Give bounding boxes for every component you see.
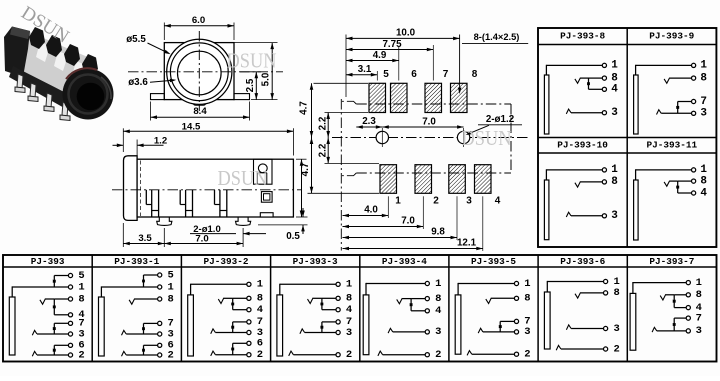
svg-text:7: 7 <box>696 312 702 324</box>
svg-text:3: 3 <box>696 325 702 337</box>
svg-text:8: 8 <box>611 72 618 84</box>
svg-text:1.2: 1.2 <box>154 135 167 146</box>
svg-text:2: 2 <box>613 343 619 355</box>
svg-text:3: 3 <box>346 327 352 339</box>
svg-text:1: 1 <box>168 281 174 293</box>
svg-text:4.7: 4.7 <box>299 101 310 115</box>
svg-text:4: 4 <box>495 195 501 206</box>
svg-text:4: 4 <box>700 187 707 199</box>
svg-text:8: 8 <box>700 72 707 84</box>
svg-text:8: 8 <box>696 289 702 301</box>
svg-text:PJ-393-9: PJ-393-9 <box>649 31 694 42</box>
svg-text:3: 3 <box>466 195 472 206</box>
svg-text:3: 3 <box>611 210 618 222</box>
svg-text:8: 8 <box>435 293 441 305</box>
svg-text:2: 2 <box>433 195 439 206</box>
svg-text:8.4: 8.4 <box>193 106 207 117</box>
svg-text:4.0: 4.0 <box>364 205 378 216</box>
svg-text:5: 5 <box>383 69 389 80</box>
svg-text:2.2: 2.2 <box>318 116 329 130</box>
svg-text:6: 6 <box>257 338 263 350</box>
svg-text:8: 8 <box>257 293 263 305</box>
svg-text:2: 2 <box>78 349 84 361</box>
svg-text:4.7: 4.7 <box>300 162 311 176</box>
svg-text:PJ-393: PJ-393 <box>31 256 65 267</box>
svg-text:7.0: 7.0 <box>422 117 436 128</box>
svg-text:5: 5 <box>168 269 174 281</box>
svg-text:PJ-393-2: PJ-393-2 <box>203 256 248 267</box>
svg-text:12.1: 12.1 <box>457 238 477 249</box>
svg-text:1: 1 <box>611 164 618 176</box>
svg-text:4: 4 <box>611 84 618 96</box>
svg-text:PJ-393-6: PJ-393-6 <box>560 256 605 267</box>
svg-text:6.0: 6.0 <box>192 15 205 26</box>
svg-text:PJ-393-1: PJ-393-1 <box>114 256 159 267</box>
svg-text:5.0: 5.0 <box>261 72 272 86</box>
svg-text:6: 6 <box>411 69 417 80</box>
svg-text:3: 3 <box>78 328 84 340</box>
svg-text:8: 8 <box>346 293 352 305</box>
svg-text:2: 2 <box>524 349 530 361</box>
svg-text:1: 1 <box>78 281 84 293</box>
svg-text:4: 4 <box>435 305 441 317</box>
svg-text:DSUN: DSUN <box>462 126 512 150</box>
svg-text:PJ-393-8: PJ-393-8 <box>560 31 605 42</box>
svg-text:14.5: 14.5 <box>182 121 201 132</box>
svg-text:1: 1 <box>700 164 707 176</box>
svg-text:PJ-393-3: PJ-393-3 <box>293 256 338 267</box>
svg-text:8: 8 <box>524 293 530 305</box>
svg-text:3: 3 <box>613 323 619 335</box>
svg-text:1: 1 <box>435 278 441 290</box>
svg-text:8: 8 <box>613 287 619 299</box>
svg-text:PJ-393-5: PJ-393-5 <box>471 256 516 267</box>
svg-text:1: 1 <box>700 60 707 72</box>
svg-text:1: 1 <box>696 277 702 289</box>
svg-text:7.0: 7.0 <box>401 216 415 227</box>
svg-text:8: 8 <box>472 69 478 80</box>
svg-text:1: 1 <box>613 276 619 288</box>
svg-text:PJ-393-11: PJ-393-11 <box>646 140 697 151</box>
svg-text:2: 2 <box>346 349 352 361</box>
svg-text:2: 2 <box>257 349 263 361</box>
svg-text:PJ-393-7: PJ-393-7 <box>649 256 694 267</box>
svg-text:1: 1 <box>346 279 352 291</box>
svg-text:2.5: 2.5 <box>245 78 256 92</box>
svg-text:DSUN: DSUN <box>227 49 277 73</box>
svg-text:4: 4 <box>346 304 352 316</box>
svg-text:3: 3 <box>168 328 174 340</box>
svg-text:2-ø1.2: 2-ø1.2 <box>486 114 515 125</box>
svg-text:1: 1 <box>611 60 618 72</box>
svg-text:8: 8 <box>168 293 174 305</box>
svg-text:10.0: 10.0 <box>396 28 416 39</box>
svg-text:8: 8 <box>611 176 618 188</box>
svg-text:1: 1 <box>257 279 263 291</box>
svg-text:3: 3 <box>611 107 618 119</box>
svg-text:8: 8 <box>700 175 707 187</box>
svg-text:2: 2 <box>168 349 174 361</box>
svg-text:7: 7 <box>443 69 449 80</box>
svg-text:3.5: 3.5 <box>138 233 152 244</box>
svg-text:9.8: 9.8 <box>431 227 445 238</box>
svg-text:ø5.5: ø5.5 <box>126 34 146 45</box>
svg-text:5: 5 <box>78 270 84 282</box>
svg-text:3.1: 3.1 <box>358 64 372 75</box>
svg-text:1: 1 <box>395 195 401 206</box>
svg-text:PJ-393-4: PJ-393-4 <box>382 256 427 267</box>
svg-text:4: 4 <box>257 304 263 316</box>
svg-text:PJ-393-10: PJ-393-10 <box>557 140 608 151</box>
svg-text:8-(1.4×2.5): 8-(1.4×2.5) <box>474 32 520 42</box>
svg-text:0.5: 0.5 <box>286 231 300 242</box>
svg-text:2: 2 <box>435 349 441 361</box>
svg-text:8: 8 <box>78 293 84 305</box>
svg-text:4.9: 4.9 <box>373 50 387 61</box>
svg-text:DSUN: DSUN <box>218 166 268 190</box>
svg-text:1: 1 <box>524 278 530 290</box>
svg-text:3: 3 <box>435 326 441 338</box>
svg-text:7: 7 <box>700 96 707 108</box>
svg-text:3: 3 <box>524 326 530 338</box>
svg-text:ø3.6: ø3.6 <box>128 77 148 88</box>
svg-text:2.3: 2.3 <box>362 116 376 127</box>
svg-text:2.2: 2.2 <box>318 143 329 157</box>
svg-text:3: 3 <box>700 108 707 120</box>
